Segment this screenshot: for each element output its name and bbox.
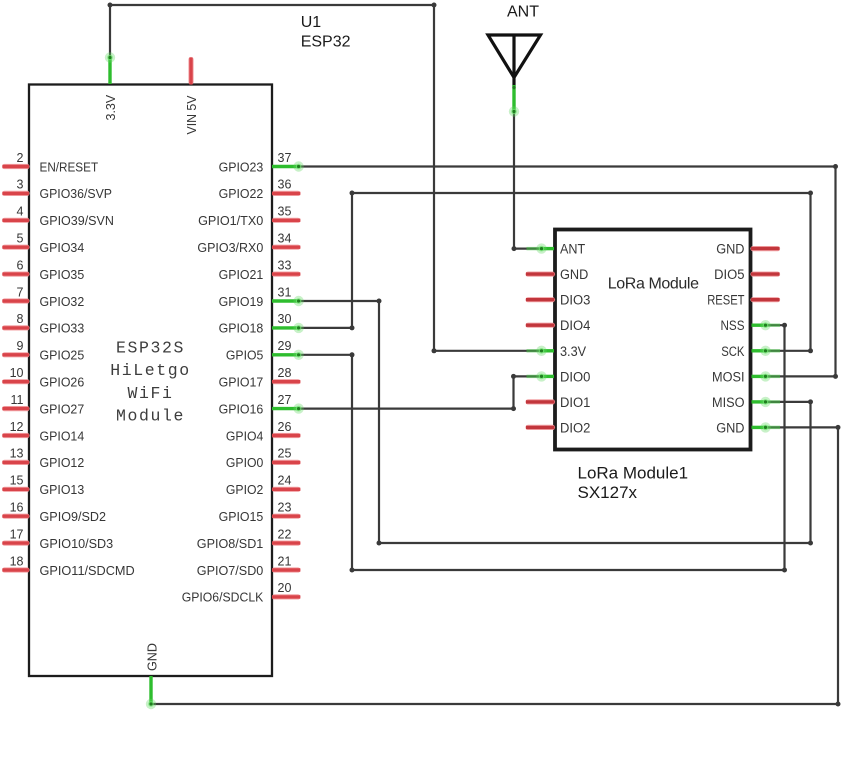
svg-text:VIN 5V: VIN 5V xyxy=(184,95,199,134)
pin 10 GPIO26 (ESP32 left) xyxy=(3,366,85,390)
LoRa Module1 SX127x reference label xyxy=(578,464,689,503)
svg-text:37: 37 xyxy=(278,151,292,165)
svg-text:DIO1: DIO1 xyxy=(560,395,590,410)
svg-text:25: 25 xyxy=(278,447,292,461)
svg-text:GPIO9/SD2: GPIO9/SD2 xyxy=(40,509,107,524)
svg-text:GND: GND xyxy=(560,267,589,282)
svg-text:GPIO12: GPIO12 xyxy=(40,455,85,470)
svg-text:SCK: SCK xyxy=(721,344,744,359)
svg-text:34: 34 xyxy=(278,232,292,246)
svg-text:GPIO10/SD3: GPIO10/SD3 xyxy=(40,536,114,551)
pin VIN 5V (ESP32 top) xyxy=(184,58,199,135)
svg-text:31: 31 xyxy=(278,285,292,299)
pin MOSI (LoRa right) xyxy=(712,369,766,384)
pin 2 EN/RESET (ESP32 left) xyxy=(3,151,99,175)
svg-text:30: 30 xyxy=(278,312,292,326)
svg-text:GPIO17: GPIO17 xyxy=(219,375,264,390)
IC U1 ESP32 module body xyxy=(29,85,272,677)
svg-text:GPIO19: GPIO19 xyxy=(219,294,264,309)
svg-text:24: 24 xyxy=(278,474,292,488)
wire net 3.3V: ESP32 3.3V to LoRa 3.3V xyxy=(105,3,547,356)
pin 29 GPIO5 (ESP32 right) xyxy=(226,339,299,363)
svg-text:4: 4 xyxy=(17,205,24,219)
pin SCK (LoRa right) xyxy=(721,344,766,359)
pin 34 GPIO3/RX0 (ESP32 right) xyxy=(197,232,300,256)
svg-text:9: 9 xyxy=(17,339,24,353)
svg-text:12: 12 xyxy=(10,420,24,434)
pin DIO2 (LoRa left) xyxy=(526,420,590,435)
pin DIO0 (LoRa left) xyxy=(542,369,591,384)
wire net MISO: GPIO19 to LoRa MISO xyxy=(293,296,813,546)
pin 18 GPIO11/SDCMD (ESP32 left) xyxy=(3,554,135,578)
svg-text:GPIO23: GPIO23 xyxy=(219,159,264,174)
pin GND (LoRa right) xyxy=(716,242,779,257)
svg-text:DIO4: DIO4 xyxy=(560,318,591,333)
svg-text:ANT: ANT xyxy=(560,242,585,257)
svg-text:GPIO27: GPIO27 xyxy=(40,401,85,416)
pin RESET (LoRa right) xyxy=(707,293,779,308)
pin 31 GPIO19 (ESP32 right) xyxy=(219,285,299,309)
pin 5 GPIO34 (ESP32 left) xyxy=(3,232,85,256)
svg-text:GPIO34: GPIO34 xyxy=(40,240,85,255)
pin 37 GPIO23 (ESP32 right) xyxy=(219,151,299,175)
pin 24 GPIO2 (ESP32 right) xyxy=(226,474,300,498)
svg-text:Module: Module xyxy=(116,407,185,426)
pin 6 GPIO35 (ESP32 left) xyxy=(3,258,85,282)
svg-text:3: 3 xyxy=(17,178,24,192)
svg-text:33: 33 xyxy=(278,258,292,272)
wire net MOSI: GPIO23 to LoRa MOSI xyxy=(293,161,838,381)
svg-text:ESP32: ESP32 xyxy=(301,33,351,50)
svg-text:RESET: RESET xyxy=(707,293,744,308)
pin 33 GPIO21 (ESP32 right) xyxy=(219,258,301,282)
svg-text:LoRa Module: LoRa Module xyxy=(608,276,699,293)
svg-text:MISO: MISO xyxy=(712,395,745,410)
svg-text:GPIO39/SVN: GPIO39/SVN xyxy=(40,213,114,228)
svg-text:GPIO21: GPIO21 xyxy=(219,267,264,282)
svg-text:GPIO15: GPIO15 xyxy=(219,509,264,524)
svg-text:13: 13 xyxy=(10,447,24,461)
svg-text:GPIO26: GPIO26 xyxy=(40,375,85,390)
svg-text:10: 10 xyxy=(10,366,24,380)
svg-text:35: 35 xyxy=(278,205,292,219)
svg-text:ANT: ANT xyxy=(507,4,539,21)
svg-text:HiLetgo: HiLetgo xyxy=(110,361,191,380)
pin 3 GPIO36/SVP (ESP32 left) xyxy=(3,178,113,202)
svg-text:3.3V: 3.3V xyxy=(560,344,586,359)
wire net ANT: antenna to LoRa ANT xyxy=(509,106,547,254)
pin DIO1 (LoRa left) xyxy=(526,395,590,410)
svg-text:GPIO18: GPIO18 xyxy=(219,321,264,336)
svg-text:GND: GND xyxy=(716,420,745,435)
svg-text:16: 16 xyxy=(10,501,24,515)
IC LoRa Module1 SX127x body xyxy=(555,230,751,450)
svg-text:GPIO7/SD0: GPIO7/SD0 xyxy=(197,563,264,578)
svg-text:GPIO35: GPIO35 xyxy=(40,267,85,282)
svg-text:GND: GND xyxy=(144,643,159,671)
svg-text:18: 18 xyxy=(10,554,24,568)
pin DIO3 (LoRa left) xyxy=(526,293,590,308)
svg-text:ESP32S: ESP32S xyxy=(116,338,185,357)
svg-text:EN/RESET: EN/RESET xyxy=(40,159,99,174)
pin 3.3V (LoRa left) xyxy=(542,344,587,359)
pin GND (LoRa left) xyxy=(526,267,589,282)
pin ANT (LoRa left) xyxy=(542,242,586,257)
svg-text:22: 22 xyxy=(278,527,292,541)
pin DIO5 (LoRa right) xyxy=(714,267,779,282)
pin 15 GPIO13 (ESP32 left) xyxy=(3,474,85,498)
svg-text:SX127x: SX127x xyxy=(578,483,638,502)
pin 30 GPIO18 (ESP32 right) xyxy=(219,312,299,336)
wire net GND: ESP32 GND to LoRa GND xyxy=(146,422,841,709)
svg-text:GPIO25: GPIO25 xyxy=(40,348,85,363)
svg-text:LoRa Module1: LoRa Module1 xyxy=(578,464,689,483)
pin 4 GPIO39/SVN (ESP32 left) xyxy=(3,205,114,229)
pin 7 GPIO32 (ESP32 left) xyxy=(3,285,85,309)
svg-text:8: 8 xyxy=(17,312,24,326)
svg-text:NSS: NSS xyxy=(721,318,745,333)
svg-text:5: 5 xyxy=(17,232,24,246)
ESP32S HiLetgo WiFi Module part title xyxy=(110,338,191,425)
svg-text:GPIO5: GPIO5 xyxy=(226,348,263,363)
pin DIO4 (LoRa left) xyxy=(526,318,591,333)
pin 20 GPIO6/SDCLK (ESP32 right) xyxy=(182,581,301,605)
pin 35 GPIO1/TX0 (ESP32 right) xyxy=(198,205,300,229)
wire net SCK: GPIO18 to LoRa SCK xyxy=(293,191,813,356)
svg-text:GPIO32: GPIO32 xyxy=(40,294,85,309)
svg-text:GPIO11/SDCMD: GPIO11/SDCMD xyxy=(40,563,135,578)
svg-text:2: 2 xyxy=(17,151,24,165)
svg-text:U1: U1 xyxy=(301,14,322,31)
svg-text:GPIO14: GPIO14 xyxy=(40,428,85,443)
svg-text:GPIO4: GPIO4 xyxy=(226,428,263,443)
svg-text:7: 7 xyxy=(17,285,24,299)
wire net DIO0: GPIO16 to LoRa DIO0 xyxy=(293,371,546,414)
svg-text:29: 29 xyxy=(278,339,292,353)
pin 12 GPIO14 (ESP32 left) xyxy=(3,420,85,444)
svg-text:23: 23 xyxy=(278,501,292,515)
svg-text:20: 20 xyxy=(278,581,292,595)
svg-text:GPIO1/TX0: GPIO1/TX0 xyxy=(198,213,263,228)
pin GND (ESP32 bottom, connected) xyxy=(144,643,159,704)
wire net NSS: GPIO5 to LoRa NSS xyxy=(293,320,787,573)
svg-text:26: 26 xyxy=(278,420,292,434)
pin 16 GPIO9/SD2 (ESP32 left) xyxy=(3,501,107,525)
svg-text:36: 36 xyxy=(278,178,292,192)
U1 ESP32 reference designator label xyxy=(301,14,351,50)
pin 27 GPIO16 (ESP32 right) xyxy=(219,393,299,417)
pin 36 GPIO22 (ESP32 right) xyxy=(219,178,301,202)
pin 13 GPIO12 (ESP32 left) xyxy=(3,447,85,471)
svg-text:6: 6 xyxy=(17,258,24,272)
pin 21 GPIO7/SD0 (ESP32 right) xyxy=(197,554,301,578)
pin NSS (LoRa right) xyxy=(721,318,767,333)
pin 22 GPIO8/SD1 (ESP32 right) xyxy=(197,527,301,551)
svg-text:GPIO8/SD1: GPIO8/SD1 xyxy=(197,536,264,551)
svg-text:GPIO33: GPIO33 xyxy=(40,321,85,336)
svg-text:GPIO16: GPIO16 xyxy=(219,401,264,416)
svg-text:17: 17 xyxy=(10,527,24,541)
svg-text:DIO0: DIO0 xyxy=(560,369,590,384)
svg-text:GPIO6/SDCLK: GPIO6/SDCLK xyxy=(182,590,264,605)
pin 26 GPIO4 (ESP32 right) xyxy=(226,420,300,444)
pin MISO (LoRa right) xyxy=(712,395,766,410)
svg-text:21: 21 xyxy=(278,554,292,568)
svg-text:GPIO36/SVP: GPIO36/SVP xyxy=(40,186,113,201)
svg-text:GPIO22: GPIO22 xyxy=(219,186,264,201)
svg-text:15: 15 xyxy=(10,474,24,488)
svg-text:27: 27 xyxy=(278,393,292,407)
svg-text:DIO3: DIO3 xyxy=(560,293,590,308)
pin 17 GPIO10/SD3 (ESP32 left) xyxy=(3,527,114,551)
pin 3.3V (ESP32 top, connected) xyxy=(103,58,118,121)
pin 8 GPIO33 (ESP32 left) xyxy=(3,312,85,336)
pin 9 GPIO25 (ESP32 left) xyxy=(3,339,85,363)
pin GND (LoRa right) xyxy=(716,420,766,435)
pin 11 GPIO27 (ESP32 left) xyxy=(3,393,85,417)
svg-text:28: 28 xyxy=(278,366,292,380)
svg-text:GPIO13: GPIO13 xyxy=(40,482,85,497)
svg-text:WiFi: WiFi xyxy=(127,384,173,403)
svg-text:GPIO3/RX0: GPIO3/RX0 xyxy=(197,240,263,255)
svg-text:GPIO0: GPIO0 xyxy=(226,455,263,470)
svg-text:DIO5: DIO5 xyxy=(714,267,744,282)
svg-text:DIO2: DIO2 xyxy=(560,420,590,435)
pin 25 GPIO0 (ESP32 right) xyxy=(226,447,300,471)
svg-text:GND: GND xyxy=(716,242,745,257)
pin 28 GPIO17 (ESP32 right) xyxy=(219,366,301,390)
pin 23 GPIO15 (ESP32 right) xyxy=(219,501,301,525)
svg-text:MOSI: MOSI xyxy=(712,369,745,384)
svg-text:11: 11 xyxy=(11,393,24,407)
svg-text:3.3V: 3.3V xyxy=(103,94,118,120)
svg-text:GPIO2: GPIO2 xyxy=(226,482,263,497)
antenna ANT symbol xyxy=(488,4,541,112)
